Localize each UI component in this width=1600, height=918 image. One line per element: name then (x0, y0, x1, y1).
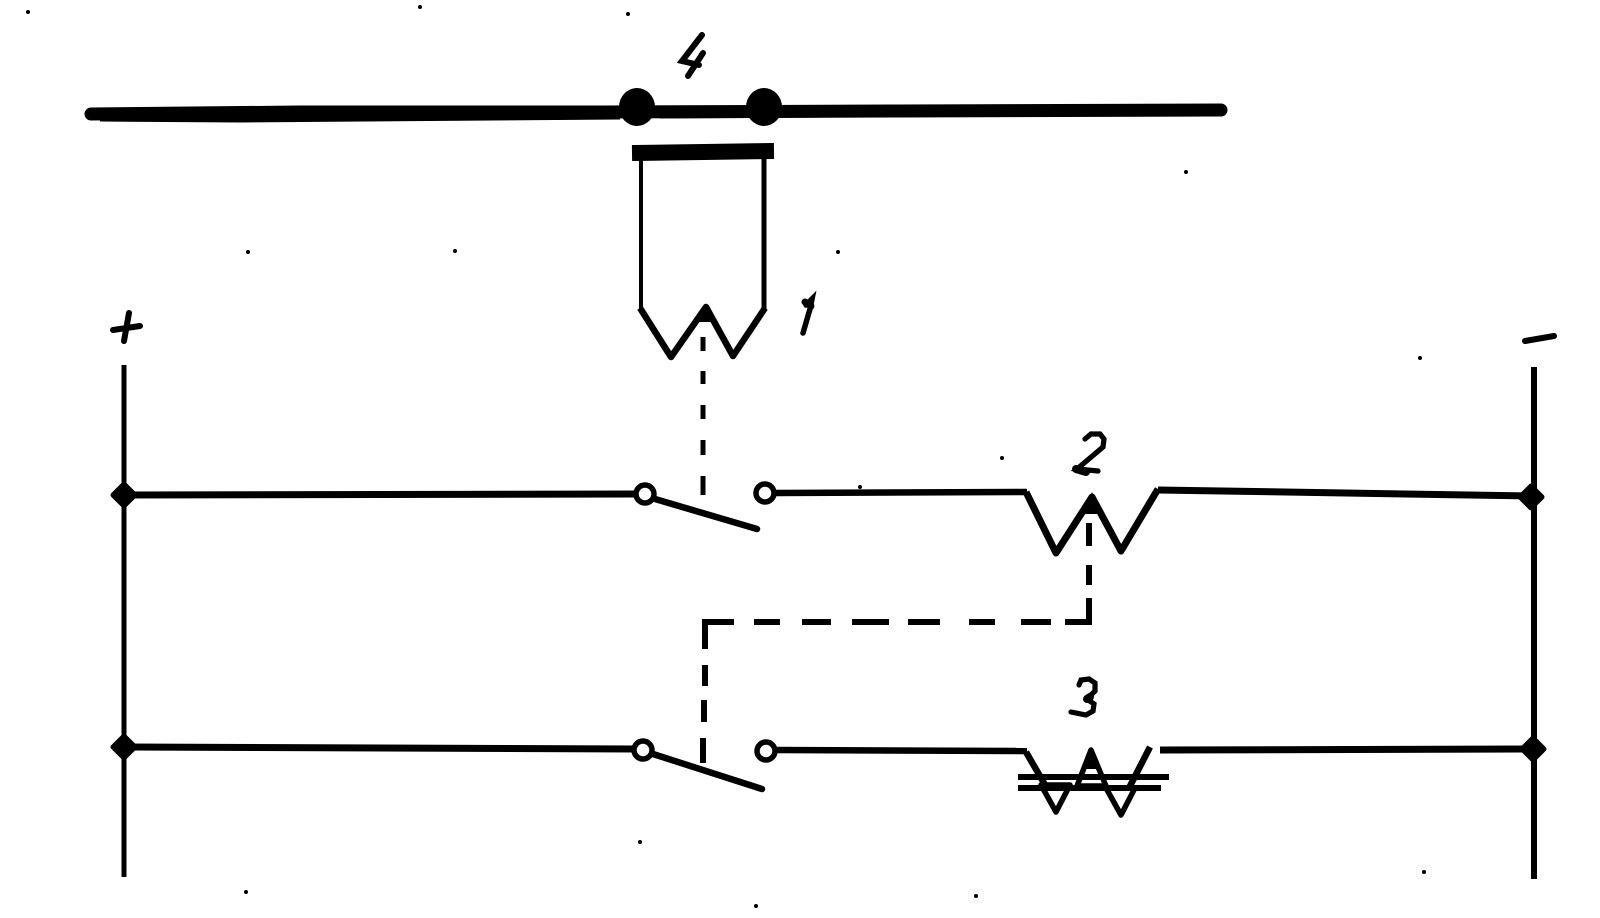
wire: lower line left segment (124, 747, 634, 749)
wire: upper line right segment (1158, 490, 1534, 496)
switch upper: right contact (756, 484, 774, 502)
wire: upper line middle segment (776, 492, 1027, 493)
node: contact dot left on wire 4 (619, 88, 655, 126)
switch lower: right contact (757, 742, 775, 760)
label 2 (1076, 434, 1104, 472)
node: junction - upper (1520, 486, 1542, 508)
wire: lower line middle segment (777, 750, 1027, 751)
node: junction + lower (113, 736, 135, 758)
wire: dashed link resistor 2 to switch 2 (703, 523, 1089, 763)
wire: left positive bus (122, 365, 127, 877)
current collector 1 (pantograph shoe) (632, 151, 774, 357)
switch upper: left contact (636, 485, 654, 503)
switch lower: blade (653, 754, 762, 789)
label - (negative bus) (1525, 336, 1554, 341)
wire: right negative bus (1531, 367, 1537, 879)
wire: contact line (net 4) (91, 110, 1221, 120)
switch lower: left contact (634, 741, 652, 759)
label 4 (682, 35, 703, 76)
wire: dashed link collector to switch 1 (701, 337, 706, 495)
wire: upper line left segment (124, 494, 634, 495)
node: junction - lower (1522, 738, 1544, 760)
wire: lower line right segment (1160, 749, 1534, 750)
resistor 2 (zigzag element) (1026, 489, 1158, 553)
node: contact dot right on wire 4 (746, 88, 782, 126)
label 1 (803, 299, 812, 333)
label 3 (1071, 679, 1095, 715)
arrester 3 (zigzag with triangles) (1018, 747, 1169, 815)
node: junction + upper (113, 484, 135, 506)
label + (positive bus) (113, 313, 140, 341)
switch upper: blade (655, 499, 757, 529)
